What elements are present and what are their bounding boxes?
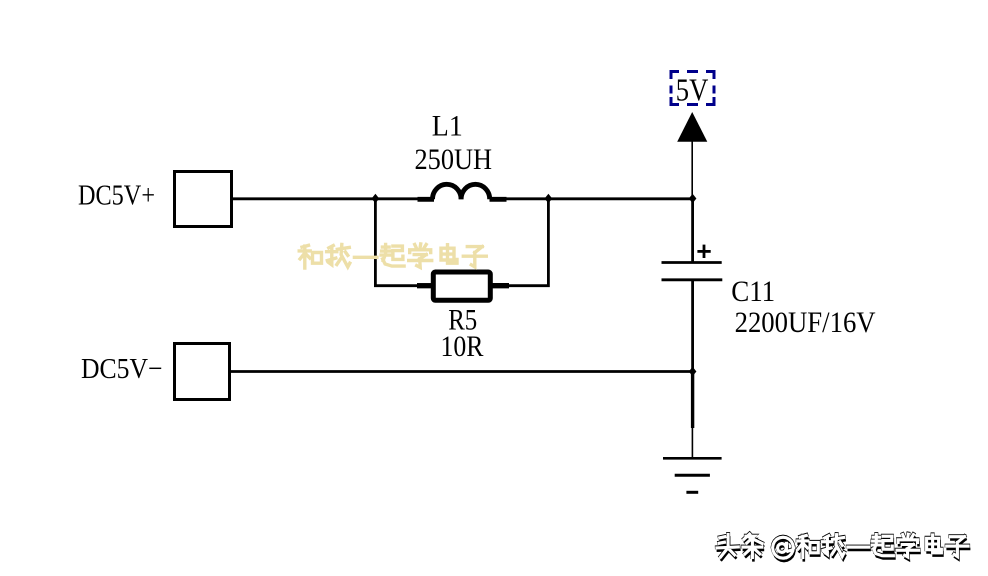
junction node top: [689, 194, 697, 203]
junction node bottom: [689, 367, 697, 376]
svg-text:5V: 5V: [676, 72, 709, 108]
wire: DC5V+ port to L1: [233, 197, 418, 200]
junction node left: [372, 194, 380, 203]
port box DC5V-: [175, 344, 230, 400]
inductor L1: [418, 184, 507, 199]
wire: node bottom to ground: [691, 372, 694, 429]
power label 5V dashed box: [671, 72, 714, 105]
power symbol 5V triangle: [677, 112, 707, 142]
ground pin: [691, 428, 693, 458]
caption headline (outline layer): [717, 534, 968, 558]
wire: node to C11: [691, 199, 694, 262]
ground: [663, 458, 722, 492]
capacitor C11: [662, 245, 723, 280]
caption headline (white face layer): [717, 534, 968, 558]
junction node right: [545, 194, 553, 203]
caption headline (shadow layer): [718, 537, 969, 561]
wire: DC5V- port to node bottom: [229, 370, 693, 373]
port box DC5V+: [175, 172, 232, 227]
wire: left drop to R5: [375, 199, 418, 286]
wire: R5 to right drop: [508, 199, 548, 286]
svg-text:250UH: 250UH: [415, 143, 493, 176]
wire: C11 to node bottom: [691, 280, 694, 372]
wire: L1 to node top: [505, 197, 693, 200]
wire: triangle stem: [691, 141, 693, 199]
svg-text:DC5V−: DC5V−: [81, 353, 163, 385]
svg-text:C11: C11: [731, 275, 775, 308]
svg-text:2200UF/16V: 2200UF/16V: [735, 306, 876, 339]
svg-text:L1: L1: [432, 110, 463, 143]
svg-text:10R: 10R: [441, 330, 484, 363]
svg-text:DC5V+: DC5V+: [78, 179, 155, 211]
resistor R5: [417, 272, 509, 300]
watermark text (khaki): [299, 244, 486, 268]
